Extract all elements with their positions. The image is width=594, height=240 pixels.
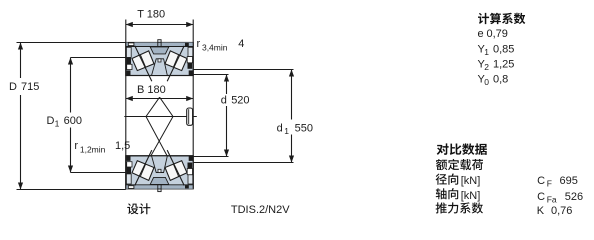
cage section marks (right edge) (188, 47, 193, 56)
dimension D1 600 (71, 57, 126, 59)
svg-text:[kN]: [kN] (461, 190, 481, 202)
bearing side faces (125, 43, 127, 189)
cage section marks (left edge) (126, 47, 131, 57)
roller contact lines (135, 46, 152, 81)
outer ring band (126, 43, 193, 47)
dimension d 520 (193, 74, 228, 76)
inner ring spacer hump (152, 59, 168, 76)
locating-pin capsule (187, 108, 193, 125)
svg-text:Fa: Fa (547, 194, 557, 204)
tapered roller (right) (165, 51, 187, 71)
bore surface edge (126, 75, 193, 77)
svg-text:1: 1 (484, 47, 489, 57)
svg-text:550: 550 (295, 123, 313, 135)
dimension T 180 (125, 20, 127, 43)
svg-text:F: F (547, 179, 552, 189)
svg-text:520: 520 (231, 95, 249, 107)
svg-text:K: K (537, 205, 545, 217)
svg-text:1: 1 (55, 119, 60, 129)
svg-text:0,79: 0,79 (487, 28, 508, 40)
tapered roller (left) (132, 51, 154, 71)
dimension B 180 (126, 98, 193, 100)
bearing cross-section bottom half (mirror) (126, 150, 193, 192)
bearing cross-section top half (126, 40, 193, 81)
outer ring joint tab (158, 40, 161, 43)
svg-text:0,76: 0,76 (551, 205, 572, 217)
row tuili xishu (thrust factor) K 0,76 (436, 202, 483, 213)
row eding zaihe (rated loads) (436, 159, 483, 170)
svg-text:0,8: 0,8 (493, 74, 508, 86)
svg-text:[kN]: [kN] (461, 175, 481, 187)
roller contact-line diamond (146, 97, 173, 155)
dimension D 715 (17, 42, 126, 44)
svg-text:1,25: 1,25 (493, 59, 514, 71)
svg-text:695: 695 (560, 175, 578, 187)
svg-text:1,5: 1,5 (115, 140, 130, 152)
outer ring key mark (right) (185, 43, 189, 46)
svg-text:D: D (47, 115, 55, 127)
svg-text:TDIS.2/N2V: TDIS.2/N2V (231, 204, 290, 216)
bearing section body (top half) (126, 43, 193, 76)
svg-text:D: D (9, 81, 17, 93)
svg-text:C: C (537, 191, 545, 203)
dimension d1 550 (193, 69, 293, 71)
svg-text:C: C (537, 175, 545, 187)
svg-text:4: 4 (238, 38, 244, 50)
svg-text:0,85: 0,85 (493, 43, 514, 55)
svg-text:600: 600 (64, 115, 82, 127)
heading jisuan xishu (calculation factors) (478, 13, 525, 24)
svg-text:d: d (221, 95, 227, 107)
svg-text:B 180: B 180 (137, 84, 166, 96)
svg-text:T 180: T 180 (137, 9, 165, 21)
outer ring locating notch (left) (128, 43, 134, 46)
outer ring center rib (150, 47, 169, 54)
svg-text:715: 715 (21, 81, 39, 93)
svg-text:526: 526 (565, 191, 583, 203)
heading duibi shuju (comparative data) (437, 143, 487, 155)
svg-text:1: 1 (284, 126, 289, 136)
row jingxiang [kN] CF 695 (436, 174, 459, 185)
horizontal centerline (124, 116, 197, 118)
svg-text:2: 2 (484, 62, 489, 72)
svg-text:d: d (277, 123, 283, 135)
svg-text:0: 0 (484, 77, 489, 87)
row zhouxiang [kN] CFa 526 (436, 188, 459, 199)
label sheji (design) (127, 203, 150, 214)
svg-text:e: e (478, 28, 484, 40)
